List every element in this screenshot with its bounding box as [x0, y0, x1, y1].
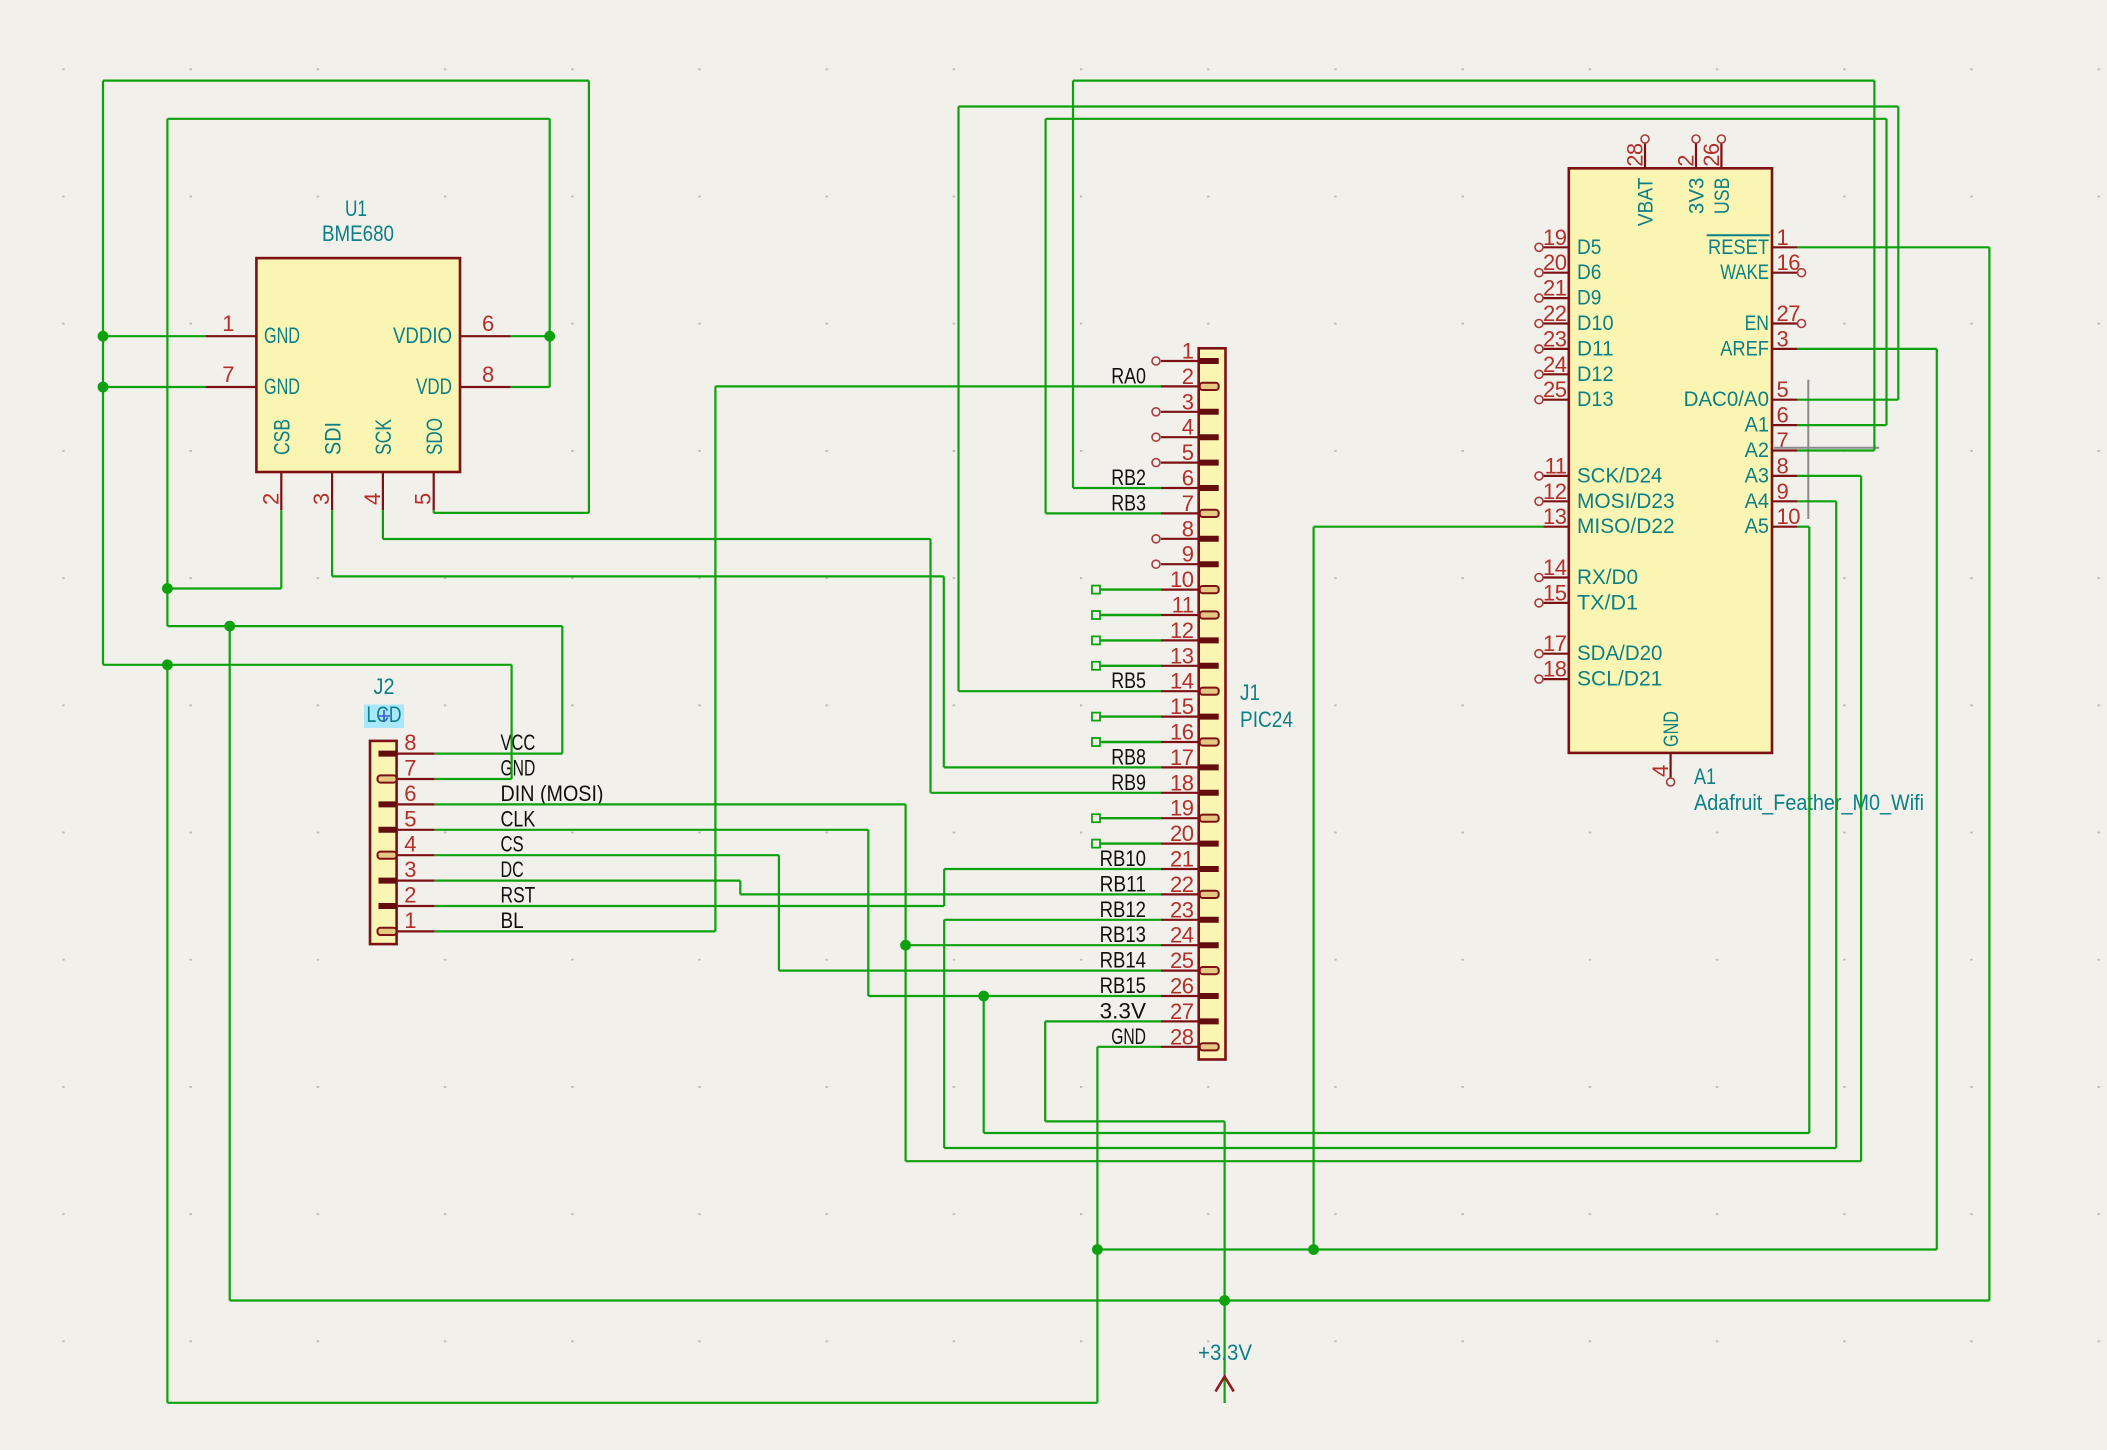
J2 pin 8 pad: [379, 751, 397, 757]
J1 pin 17 pad: [1200, 764, 1219, 770]
J1 pin 19 dangling wire stub: [1092, 814, 1161, 822]
svg-text:3.3V: 3.3V: [1100, 998, 1146, 1023]
svg-text:12: 12: [1543, 479, 1567, 504]
J1 pin 27 stub: [1161, 1020, 1199, 1022]
J1 pin 24 number: [1170, 923, 1194, 948]
A1 pin 11 name SCK/D24: [1577, 463, 1662, 487]
A1 pin 14 unconnected marker: [1535, 574, 1543, 582]
J1 pin 14 net label RB5: [1111, 668, 1146, 693]
J2 pin 6 net label DIN (MOSI): [501, 781, 604, 806]
wire J1 RB15 pin26 horizontal: [868, 995, 1161, 997]
A1 top pin 28 number: [1623, 143, 1648, 167]
U1 pin 6 VDDIO stub: [460, 335, 511, 337]
J1 pin 3 stub: [1161, 411, 1199, 413]
svg-text:DIN (MOSI): DIN (MOSI): [501, 781, 604, 806]
J1 pin 16 pad: [1200, 738, 1219, 745]
svg-text:A1: A1: [1694, 764, 1716, 789]
wire A4 riser vertical: [1835, 501, 1837, 1148]
A1 pin 7 A2 stub: [1772, 449, 1797, 451]
svg-text:2: 2: [404, 883, 416, 908]
J1 pin 8 pad: [1200, 536, 1219, 542]
svg-text:28: 28: [1623, 143, 1648, 167]
J1 pin 4 number: [1182, 415, 1194, 440]
A1 pin 25 D13 stub: [1543, 399, 1568, 401]
A1 pin 12 unconnected marker: [1535, 497, 1543, 505]
svg-text:1: 1: [404, 908, 416, 933]
J1 pin 18 pad: [1200, 790, 1219, 796]
A1 pin 15 unconnected marker: [1535, 599, 1543, 607]
svg-text:25: 25: [1170, 948, 1194, 973]
J2 pin 5 stub: [397, 829, 435, 831]
wire RB5-DAC0 top horizontal: [959, 105, 1899, 107]
J1 pin 10 pad: [1200, 586, 1219, 593]
A1 pin 14 RX/D0 stub: [1543, 576, 1568, 578]
J2 pin 7 net label GND: [501, 756, 536, 781]
J1 pin 3 unconnected marker: [1152, 408, 1160, 416]
svg-text:13: 13: [1170, 643, 1194, 668]
connector J2 LCD body: [370, 741, 397, 944]
svg-text:4: 4: [1182, 415, 1194, 440]
svg-text:CLK: CLK: [501, 806, 536, 831]
wire DIN vertical: [904, 804, 906, 1161]
svg-text:VDD: VDD: [416, 374, 452, 399]
A1 pin 18 number: [1543, 657, 1567, 682]
svg-text:26: 26: [1699, 143, 1724, 167]
A1 pin 9 A4 stub: [1772, 500, 1797, 502]
svg-text:PIC24: PIC24: [1240, 707, 1293, 732]
A1 bottom pin 4 GND stub: [1669, 753, 1671, 778]
svg-text:3: 3: [404, 857, 416, 882]
svg-text:RA0: RA0: [1111, 363, 1146, 388]
U1 pin 2 stub: [280, 472, 282, 510]
A1 pin 13 number: [1543, 504, 1567, 529]
J2 pin 8 number: [404, 730, 416, 755]
wire J1 RB14 pin25 horizontal: [779, 969, 1161, 971]
junction RB15 branch: [978, 991, 989, 1002]
A1 pin 6 name A1: [1745, 413, 1769, 437]
J1 pin 28 pad: [1200, 1043, 1219, 1050]
wire GND vertical from J1 pin28 down to bottom: [1096, 1047, 1098, 1403]
svg-text:19: 19: [1543, 225, 1567, 250]
J1 pin 16 stub: [1161, 741, 1199, 743]
svg-text:8: 8: [1182, 516, 1194, 541]
svg-text:3: 3: [1777, 326, 1789, 351]
J1 pin 9 pad: [1200, 561, 1219, 567]
wire A1 feather-A1 vertical drop: [1885, 119, 1887, 425]
junction DIN at RB13 row: [900, 940, 911, 951]
wire AREF riser vertical: [1936, 349, 1938, 1250]
svg-text:RB5: RB5: [1111, 668, 1146, 693]
A1 RESET name overline: [1707, 234, 1770, 236]
svg-text:A3: A3: [1745, 463, 1769, 487]
J1 pin 5 unconnected marker: [1152, 459, 1160, 467]
svg-text:D6: D6: [1577, 260, 1601, 284]
svg-text:4: 4: [404, 832, 416, 857]
svg-text:20: 20: [1543, 250, 1567, 275]
connector J1 PIC24 body: [1199, 348, 1226, 1059]
A1 bottom pin 4 name GND: [1659, 711, 1683, 747]
wire U1 GND pin7 to vertical: [103, 386, 206, 388]
J1 pin 28 net label GND: [1111, 1024, 1146, 1049]
U1 pin 4 stub: [382, 472, 384, 510]
svg-text:3: 3: [309, 493, 334, 505]
svg-text:23: 23: [1170, 897, 1194, 922]
J2 pin 7 number: [404, 756, 416, 781]
J1 pin 7 pad: [1200, 510, 1219, 517]
wire DAC0/A0 vertical drop: [1897, 107, 1899, 400]
A1 pin 23 name D11: [1577, 336, 1614, 360]
wire RB15-A5 bottom rail: [984, 1132, 1810, 1134]
A1 pin 19 name D5: [1577, 235, 1601, 259]
J1 pin 9 unconnected marker: [1152, 560, 1160, 568]
svg-text:RB14: RB14: [1100, 948, 1146, 973]
J2 pin 8 stub: [397, 752, 435, 754]
svg-text:EN: EN: [1745, 311, 1769, 335]
wire A1 RESET pin1 horizontal: [1797, 246, 1989, 248]
wire RB2 vertical drop: [1072, 81, 1074, 488]
svg-text:+3.3V: +3.3V: [1198, 1340, 1252, 1365]
svg-text:6: 6: [404, 781, 416, 806]
svg-text:D12: D12: [1577, 362, 1614, 386]
wire RB15 branch vertical: [983, 996, 985, 1133]
wire J1 RB5 pin14 horizontal: [959, 690, 1162, 692]
A1 pin 7 name A2: [1745, 438, 1769, 462]
J1 pin 18 stub: [1161, 792, 1199, 794]
svg-text:D13: D13: [1577, 387, 1614, 411]
J1 pin 1 number: [1182, 339, 1194, 364]
J2 pin 1 pad: [378, 928, 397, 935]
wire GND net horizontal to J2 GND: [103, 664, 512, 666]
J1 pin 27 net label 3.3V: [1100, 998, 1146, 1023]
J1 pin 25 stub: [1161, 969, 1199, 971]
svg-text:RB9: RB9: [1111, 770, 1146, 795]
wire A1 A1 pin6 horizontal: [1797, 424, 1886, 426]
A1 pin 14 name RX/D0: [1577, 565, 1638, 589]
svg-text:A2: A2: [1745, 438, 1769, 462]
U1 pin 1 GND stub: [206, 335, 257, 337]
J1 pin 8 unconnected marker: [1152, 535, 1160, 543]
A1 top pin 2 3V3 stub: [1695, 143, 1697, 168]
wire U1 SDO to GND drop horizontal: [434, 512, 589, 514]
A1 pin 3 number: [1777, 326, 1789, 351]
A1 pin 8 A3 stub: [1772, 475, 1797, 477]
wire U1 VDD pin8 to vertical: [511, 386, 550, 388]
A1 pin 16 WAKE stub: [1772, 272, 1797, 274]
J1 pin 12 stub: [1161, 639, 1199, 641]
A1 pin 13 MISO/D22 stub: [1543, 526, 1568, 528]
svg-text:19: 19: [1170, 796, 1194, 821]
J1 pin 25 number: [1170, 948, 1194, 973]
svg-text:J1: J1: [1240, 680, 1260, 705]
U1 pin 8 VDD stub: [460, 386, 511, 388]
J1 pin 20 pad: [1200, 841, 1219, 847]
J1 pin 12 dangling wire stub: [1092, 636, 1161, 644]
J1 pin 3 number: [1182, 389, 1194, 414]
svg-text:8: 8: [1777, 453, 1789, 478]
svg-text:25: 25: [1543, 377, 1567, 402]
A1 pin 23 D11 stub: [1543, 348, 1568, 350]
svg-text:28: 28: [1170, 1024, 1194, 1049]
svg-text:1: 1: [1777, 225, 1789, 250]
svg-text:6: 6: [1182, 466, 1194, 491]
A1 pin 17 unconnected marker: [1535, 650, 1543, 658]
wire 3V3 bottom rail: [230, 1299, 1990, 1301]
svg-text:RB8: RB8: [1111, 744, 1146, 769]
J1 pin 15 stub: [1161, 715, 1199, 717]
wire J2 RST pin2 horizontal: [435, 905, 945, 907]
wire U1 VDDIO pin6 to vertical: [511, 335, 550, 337]
J1 pin 22 net label RB11: [1100, 871, 1146, 896]
wire A1 A2 pin7 horizontal: [1797, 449, 1874, 451]
junction 3V3 at U1 VDDIO: [544, 331, 555, 342]
power symbol +3.3V arrow: [1216, 1377, 1234, 1392]
svg-text:21: 21: [1543, 276, 1567, 301]
U1 pin 7 GND stub: [206, 386, 257, 388]
J2 pin 1 number: [404, 908, 416, 933]
J1 pin 6 number: [1182, 466, 1194, 491]
wire 3V3 power symbol stem: [1223, 1121, 1225, 1403]
wire 3V3 top horizontal: [167, 118, 549, 120]
A1 pin 19 number: [1543, 225, 1567, 250]
A1 pin 6 number: [1777, 403, 1789, 428]
svg-text:D11: D11: [1577, 336, 1614, 360]
svg-text:VDDIO: VDDIO: [393, 323, 452, 348]
wire SCK vertical to RB9: [929, 539, 931, 793]
svg-text:4: 4: [1648, 765, 1673, 777]
J1 pin 7 number: [1182, 491, 1194, 516]
svg-text:GND: GND: [264, 374, 300, 399]
A1 pin 1 RESET stub: [1772, 246, 1797, 248]
A1 pin 6 A1 stub: [1772, 424, 1797, 426]
A1 pin 25 number: [1543, 377, 1567, 402]
A1 pin 5 number: [1777, 377, 1789, 402]
J2 pin 5 number: [404, 806, 416, 831]
junction GND branch down at x167: [162, 659, 173, 670]
A1 pin 13 name MISO/D22: [1577, 514, 1675, 538]
wire RB12-A4 bottom rail: [944, 1147, 1836, 1149]
J1 pin 4 pad: [1200, 434, 1219, 440]
A1 pin 21 number: [1543, 276, 1567, 301]
svg-text:7: 7: [404, 756, 416, 781]
wire GND rail to AREF riser: [1097, 1248, 1936, 1250]
wire SDI horizontal: [332, 575, 944, 577]
svg-text:CSB: CSB: [270, 419, 295, 455]
svg-text:U1: U1: [345, 196, 367, 221]
J2 pin 5 net label CLK: [501, 806, 536, 831]
J1 pin 28 stub: [1161, 1046, 1199, 1048]
power symbol +3.3V label: [1198, 1340, 1252, 1365]
A1 pin 18 name SCL/D21: [1577, 667, 1662, 691]
wire J1 RB2 pin6 horizontal: [1073, 487, 1161, 489]
svg-text:RST: RST: [501, 883, 536, 908]
A1 pin 18 SCL/D21 stub: [1543, 678, 1568, 680]
wire RB12 vertical: [943, 920, 945, 1148]
svg-text:SCK: SCK: [371, 419, 396, 455]
A1 pin 16 unconnected marker: [1798, 269, 1806, 277]
J1 pin 1 unconnected marker: [1152, 357, 1160, 365]
svg-text:RB10: RB10: [1100, 846, 1146, 871]
svg-text:27: 27: [1777, 301, 1801, 326]
J1 pin 2 net label RA0: [1111, 363, 1146, 388]
A1 pin 19 D5 stub: [1543, 246, 1568, 248]
svg-text:15: 15: [1170, 694, 1194, 719]
A1 pin 9 name A4: [1745, 489, 1769, 513]
A1 pin 7 number: [1777, 428, 1789, 453]
A1 pin 10 A5 stub: [1772, 526, 1797, 528]
A1 pin 22 number: [1543, 301, 1567, 326]
U1 pin numbers 1 7 6 8 2 3 4 5: [222, 311, 494, 505]
J1 pin 24 pad: [1200, 942, 1219, 948]
A1 pin 15 TX/D1 stub: [1543, 602, 1568, 604]
J1 pin 23 pad: [1200, 917, 1219, 923]
svg-text:J2: J2: [374, 674, 395, 699]
junction 3V3 branch down at x229: [224, 621, 235, 632]
J1 pin 6 stub: [1161, 487, 1199, 489]
svg-text:SDI: SDI: [320, 422, 345, 455]
J1 pin 4 stub: [1161, 436, 1199, 438]
svg-text:RX/D0: RX/D0: [1577, 565, 1638, 589]
svg-text:14: 14: [1543, 555, 1567, 580]
J1 pin 2 stub: [1161, 385, 1199, 387]
J1 pin 8 stub: [1161, 538, 1199, 540]
svg-text:5: 5: [1777, 377, 1789, 402]
svg-text:9: 9: [1182, 542, 1194, 567]
wire SCK horizontal: [383, 538, 931, 540]
A1 pin 23 unconnected marker: [1535, 345, 1543, 353]
svg-text:D9: D9: [1577, 286, 1601, 310]
wire GND drop to J2 GND pin7: [511, 665, 513, 779]
A1 pin 1 name RESET: [1708, 235, 1769, 259]
wire 3V3 drop to J2 VCC pin8: [561, 626, 563, 754]
A1 pin 3 AREF stub: [1772, 348, 1797, 350]
svg-text:AREF: AREF: [1720, 336, 1769, 360]
A1 bottom pin 4 unconnected marker: [1667, 778, 1675, 786]
J1 pin 13 dangling wire stub: [1092, 662, 1161, 670]
svg-text:20: 20: [1170, 821, 1194, 846]
J1 value PIC24: [1240, 707, 1293, 732]
J1 pin 5 number: [1182, 440, 1194, 465]
A1 pin 11 unconnected marker: [1535, 472, 1543, 480]
svg-text:16: 16: [1170, 720, 1194, 745]
junction CSB on 3V3 vertical: [162, 583, 173, 594]
wire J2 DC pin3 horizontal: [435, 879, 741, 881]
A1 top pin 2 name 3V3: [1685, 177, 1709, 214]
A1 pin 9 number: [1777, 479, 1789, 504]
wire 3V3 vertical at x167: [166, 119, 168, 626]
wire J1 RB9 pin18 horizontal: [931, 792, 1162, 794]
J1 pin 9 stub: [1161, 563, 1199, 565]
svg-text:24: 24: [1543, 352, 1567, 377]
wire 3.3V jog horizontal: [1045, 1120, 1224, 1122]
A1 pin 15 number: [1543, 580, 1567, 605]
A1 value Adafruit_Feather_M0_Wifi: [1694, 790, 1924, 815]
J2 pin 4 stub: [397, 854, 435, 856]
svg-text:3V3: 3V3: [1685, 177, 1709, 214]
wire A1 A4 pin9 horizontal: [1797, 500, 1836, 502]
wire J1 RB10 pin21 horizontal: [944, 868, 1161, 870]
wire A3 riser vertical: [1860, 476, 1862, 1161]
J2 pin 4 pad: [378, 852, 397, 859]
svg-text:MISO/D22: MISO/D22: [1577, 514, 1675, 538]
J1 pin 20 stub: [1161, 842, 1199, 844]
J1 pin 2 number: [1182, 364, 1194, 389]
J1 pin 21 number: [1170, 847, 1194, 872]
svg-text:4: 4: [360, 493, 385, 505]
svg-text:2: 2: [1182, 364, 1194, 389]
svg-text:RB15: RB15: [1100, 973, 1146, 998]
J1 pin 19 pad: [1200, 815, 1219, 822]
wire U1 CSB horizontal to 3V3 vertical: [167, 587, 281, 589]
wire J1 GND pin28 horizontal: [1097, 1046, 1161, 1048]
J2 reference designator: [374, 674, 395, 699]
wire J1 RA0 pin2 horizontal: [715, 385, 1161, 387]
wire RA0-BL vertical: [714, 386, 716, 931]
A1 pin 5 name DAC0/A0: [1684, 387, 1769, 411]
svg-text:RB13: RB13: [1100, 922, 1146, 947]
wire J1 RB12 pin23 horizontal: [944, 919, 1161, 921]
A1 pin 24 number: [1543, 352, 1567, 377]
svg-text:18: 18: [1543, 657, 1567, 682]
wire A1 A5 pin10 horizontal: [1797, 526, 1809, 528]
svg-text:23: 23: [1543, 326, 1567, 351]
A1 pin 23 number: [1543, 326, 1567, 351]
svg-text:1: 1: [222, 311, 234, 336]
wire A1 AREF pin3 horizontal: [1797, 348, 1936, 350]
A1 pin 25 unconnected marker: [1535, 396, 1543, 404]
wire J1 RB8 pin17 horizontal: [944, 766, 1161, 768]
J1 pin 26 pad: [1200, 993, 1219, 999]
J1 pin 11 number: [1172, 593, 1194, 618]
A1 pin 11 number: [1545, 453, 1567, 478]
A1 pin 18 unconnected marker: [1535, 675, 1543, 683]
A1 pin 14 number: [1543, 555, 1567, 580]
J1 pin 5 stub: [1161, 462, 1199, 464]
J1 pin 24 net label RB13: [1100, 922, 1146, 947]
wire J1 RB11 pin22 horizontal: [740, 893, 1161, 895]
svg-text:14: 14: [1170, 669, 1194, 694]
J1 pin 18 net label RB9: [1111, 770, 1146, 795]
J1 pin 26 stub: [1161, 995, 1199, 997]
wire SDI vertical to RB8: [943, 576, 945, 767]
J1 pin 5 pad: [1200, 460, 1219, 466]
wire RESET riser vertical: [1988, 247, 1990, 1300]
J1 pin 17 stub: [1161, 766, 1199, 768]
J1 pin 1 stub: [1161, 360, 1199, 362]
J1 pin 23 number: [1170, 897, 1194, 922]
A1 pin 20 number: [1543, 250, 1567, 275]
wire CLK vertical: [867, 830, 869, 996]
svg-text:15: 15: [1543, 580, 1567, 605]
svg-text:RB12: RB12: [1100, 897, 1146, 922]
wire A2 vertical drop: [1873, 81, 1875, 451]
svg-text:10: 10: [1170, 567, 1194, 592]
J1 pin 2 pad: [1200, 383, 1219, 390]
module A1 Adafruit_Feather_M0_Wifi body: [1569, 168, 1772, 753]
A1 pin 8 name A3: [1745, 463, 1769, 487]
gray selection artifact vertical near A1 pin A2: [1807, 380, 1809, 519]
svg-text:SCK/D24: SCK/D24: [1577, 463, 1662, 487]
A1 pin 12 MOSI/D23 stub: [1543, 500, 1568, 502]
A1 top pin 26 USB stub: [1720, 143, 1722, 168]
J1 pin 18 number: [1170, 770, 1194, 795]
wire GND net vertical drop to U1 SDO: [588, 81, 590, 513]
svg-text:27: 27: [1170, 999, 1194, 1024]
svg-text:1: 1: [1182, 339, 1194, 364]
A1 pin 17 SDA/D20 stub: [1543, 653, 1568, 655]
J2 pin 8 net label VCC: [501, 730, 536, 755]
A1 pin 12 name MOSI/D23: [1577, 489, 1675, 513]
svg-text:RESET: RESET: [1708, 235, 1769, 259]
